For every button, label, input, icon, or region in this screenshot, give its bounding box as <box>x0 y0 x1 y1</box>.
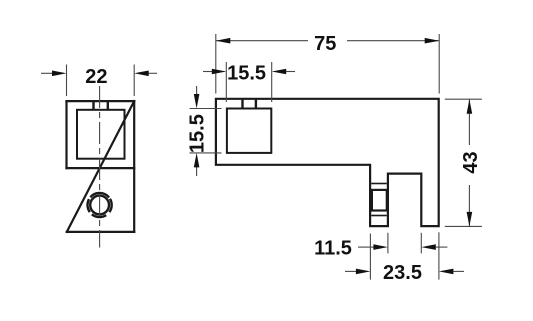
svg-text:22: 22 <box>85 66 107 88</box>
svg-text:15.5: 15.5 <box>227 63 266 85</box>
svg-text:23.5: 23.5 <box>383 262 422 284</box>
svg-text:75: 75 <box>314 33 336 55</box>
svg-text:43: 43 <box>460 151 482 173</box>
svg-text:11.5: 11.5 <box>314 238 352 260</box>
svg-text:15.5: 15.5 <box>187 114 209 153</box>
